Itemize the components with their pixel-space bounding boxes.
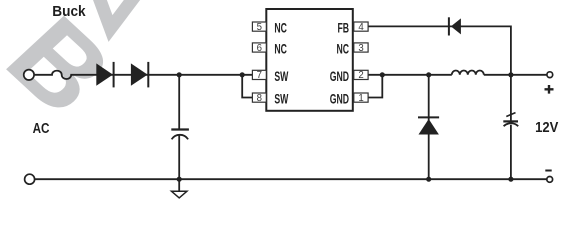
svg-text:FB: FB: [337, 21, 349, 37]
svg-text:GND: GND: [330, 69, 349, 85]
svg-text:1: 1: [358, 93, 364, 104]
svg-text:SW: SW: [274, 69, 288, 85]
svg-text:2: 2: [358, 70, 364, 81]
svg-text:NC: NC: [274, 21, 287, 37]
svg-text:NC: NC: [336, 41, 349, 57]
svg-text:AC: AC: [33, 120, 50, 137]
svg-text:SW: SW: [274, 92, 288, 108]
svg-text:4: 4: [358, 22, 364, 33]
svg-text:GND: GND: [330, 92, 349, 108]
svg-text:6: 6: [257, 42, 263, 53]
svg-text:Buck: Buck: [52, 3, 85, 19]
svg-text:8: 8: [257, 93, 263, 104]
svg-text:3: 3: [358, 42, 364, 53]
svg-text:NC: NC: [274, 41, 287, 57]
svg-text:12V: 12V: [535, 118, 559, 135]
svg-text:7: 7: [257, 70, 263, 81]
svg-text:5: 5: [257, 22, 263, 33]
